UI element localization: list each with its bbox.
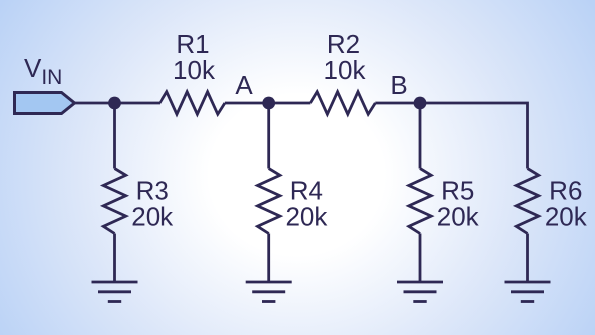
svg-text:A: A bbox=[235, 70, 253, 100]
svg-text:B: B bbox=[390, 70, 407, 100]
wire: node B down to R5 bbox=[419, 103, 422, 169]
svg-text:10k: 10k bbox=[173, 55, 216, 85]
wire: R5 to ground bbox=[419, 234, 422, 283]
wire: connector tip to R1 bbox=[75, 102, 161, 105]
wire: R6 to ground bbox=[526, 234, 529, 283]
resistor R6 bbox=[516, 169, 538, 234]
ground G3 bbox=[92, 282, 138, 302]
resistor R1 bbox=[160, 92, 225, 114]
wire: node VIN down to R3 bbox=[113, 103, 116, 169]
resistor R3 bbox=[103, 169, 125, 234]
label R6 value bbox=[545, 176, 588, 232]
svg-text:10k: 10k bbox=[324, 55, 367, 85]
wire: node A down to R4 bbox=[267, 103, 270, 169]
resistor R4 bbox=[258, 169, 280, 234]
svg-text:20k: 20k bbox=[437, 202, 480, 232]
svg-text:20k: 20k bbox=[545, 202, 588, 232]
wire: R1 to R2 through node A bbox=[225, 102, 311, 105]
label R5 value bbox=[437, 176, 480, 232]
wire: R2 to top-right corner down to R6 bbox=[375, 103, 527, 169]
input connector VIN bbox=[15, 93, 75, 114]
svg-text:20k: 20k bbox=[131, 202, 174, 232]
resistor R5 bbox=[409, 169, 431, 234]
label R4 value bbox=[285, 176, 328, 232]
ground G4 bbox=[246, 282, 292, 302]
node VIN junction dot bbox=[108, 97, 121, 110]
wire: R3 to ground bbox=[113, 234, 116, 283]
wire: R4 to ground bbox=[267, 234, 270, 283]
node B junction dot bbox=[414, 97, 427, 110]
node A junction dot bbox=[262, 97, 275, 110]
ground G6 bbox=[505, 282, 551, 302]
resistor R2 bbox=[310, 92, 375, 114]
label R2 value bbox=[324, 29, 367, 85]
label R3 value bbox=[131, 176, 174, 232]
label R1 value bbox=[173, 29, 216, 85]
ground G5 bbox=[397, 282, 443, 302]
svg-text:20k: 20k bbox=[285, 202, 328, 232]
